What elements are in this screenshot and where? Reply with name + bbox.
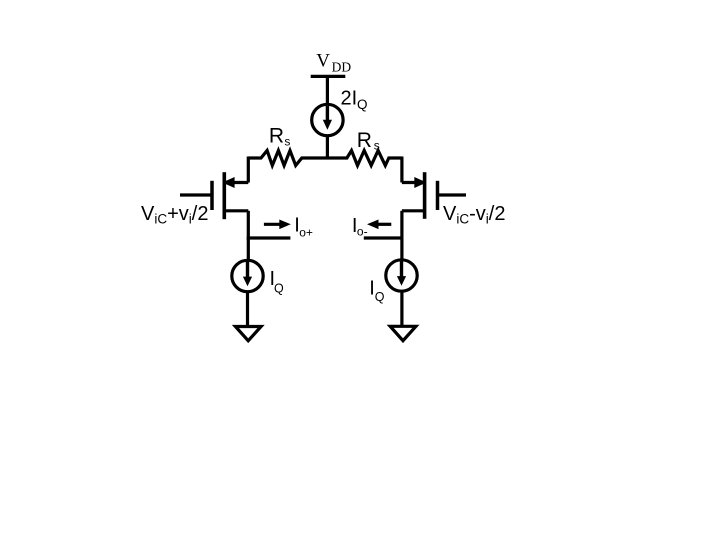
svg-text:s: s	[374, 138, 380, 152]
svg-text:Q: Q	[375, 290, 385, 304]
svg-text:R: R	[357, 129, 372, 152]
svg-text:s: s	[284, 135, 290, 149]
svg-text:Q: Q	[274, 281, 284, 295]
svg-text:R: R	[269, 124, 284, 147]
svg-text:V: V	[316, 50, 330, 71]
svg-text:ViC-vi/2: ViC-vi/2	[443, 203, 505, 227]
svg-text:o+: o+	[299, 225, 313, 239]
svg-text:Q: Q	[357, 97, 368, 112]
svg-text:2I: 2I	[341, 88, 358, 110]
svg-text:o-: o-	[357, 224, 368, 238]
svg-text:DD: DD	[332, 59, 352, 74]
svg-text:ViC+vi/2: ViC+vi/2	[141, 203, 208, 227]
